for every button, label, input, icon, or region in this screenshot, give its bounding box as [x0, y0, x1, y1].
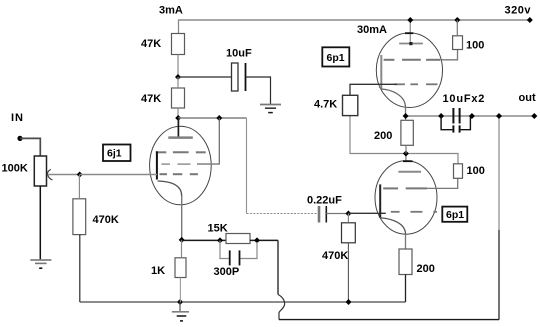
node V1 cathode node — [179, 237, 185, 243]
wire R4 bottom lead — [79, 235, 81, 302]
svg-text:15K: 15K — [208, 223, 228, 235]
node IN terminal — [17, 136, 22, 141]
capacitor C3 0.22uF — [307, 195, 342, 223]
resistor R4 470K — [73, 199, 119, 235]
ground G2 pot — [30, 260, 51, 268]
svg-text:470K: 470K — [322, 250, 348, 262]
capacitor C1 10uF — [226, 48, 252, 92]
wire input to pot — [20, 138, 40, 156]
tube V1 plate — [168, 136, 193, 139]
tube V1 plate lead — [177, 118, 179, 138]
label box 6p1 upper — [322, 47, 349, 66]
svg-text:100: 100 — [467, 165, 485, 177]
svg-text:30mA: 30mA — [357, 24, 387, 36]
resistor R10 4.7K — [314, 95, 358, 115]
tube V1 cathode — [158, 181, 182, 196]
wire R7 top lead — [347, 214, 349, 223]
resistor R12 100 (V3 screen) — [454, 164, 485, 179]
resistor R1 47K — [141, 34, 185, 55]
wire plate junction to coupling corner — [178, 117, 246, 119]
node C4 left — [438, 113, 444, 119]
label box 6p1 lower — [442, 207, 467, 222]
tube V2 grid lead — [380, 55, 382, 89]
svg-text:300P: 300P — [214, 266, 240, 278]
svg-text:470K: 470K — [93, 214, 119, 226]
wire R4 top lead — [78, 175, 80, 199]
tube V1 6j1 envelope — [150, 126, 212, 205]
resistor R6 15K — [208, 223, 251, 244]
node V2 plate rail dot — [407, 17, 413, 23]
wire coupling vertical — [246, 118, 248, 214]
svg-text:200: 200 — [374, 130, 392, 142]
wire 1K top lead — [181, 240, 183, 258]
capacitor C4 10uFx2 — [441, 93, 485, 133]
svg-text:10uFx2: 10uFx2 — [443, 93, 486, 105]
svg-text:100: 100 — [466, 40, 484, 52]
svg-text:200: 200 — [417, 263, 435, 275]
node R7 bus dot — [346, 299, 352, 305]
wire screen tap of V1 — [197, 118, 219, 164]
node SRPP output — [403, 113, 409, 119]
resistor R7 470K — [322, 223, 355, 262]
svg-text:IN: IN — [11, 112, 24, 124]
tube V3 cathode — [380, 218, 405, 234]
wire feedback vertical right lower — [498, 230, 500, 320]
wire 15K right to feedback corner — [250, 239, 278, 241]
wire pot bottom lead — [39, 186, 41, 260]
wire coupling to C3 — [247, 213, 320, 215]
wire grid node to V1 grid — [80, 174, 157, 176]
svg-text:6p1: 6p1 — [446, 209, 464, 221]
svg-text:3mA: 3mA — [159, 5, 183, 17]
svg-text:100K: 100K — [2, 163, 28, 175]
tube V2 control grid dashes — [394, 83, 437, 85]
svg-text:10uF: 10uF — [226, 48, 252, 60]
wire feedback hop over bus — [278, 294, 285, 319]
capacitor C2 300P — [214, 240, 258, 278]
svg-text:out: out — [519, 92, 536, 104]
svg-text:6j1: 6j1 — [107, 148, 122, 160]
wire V2 cathode lead — [405, 108, 407, 117]
wire V2 screen to R9 — [440, 50, 457, 60]
wire feedback bus B bottom — [279, 319, 499, 321]
wire ground bus A — [80, 301, 406, 303]
wire V3 plate node — [350, 116, 458, 164]
potentiometer R3 100K — [2, 156, 47, 186]
wire rail corner down to R1 — [178, 19, 180, 33]
wire R2 top lead — [177, 77, 179, 88]
resistor R9 100 (V2 screen) — [453, 36, 485, 52]
wire pot wiper arrow — [47, 169, 79, 180]
wire R8 top lead — [405, 116, 407, 120]
wire to C1 — [178, 76, 232, 78]
svg-text:47K: 47K — [141, 38, 161, 50]
node bus ground dot — [177, 299, 183, 305]
node out terminal — [531, 113, 537, 119]
tube V1 grid dashes row1 — [156, 151, 206, 153]
svg-text:320v: 320v — [505, 5, 532, 17]
wire V3 cathode lead — [405, 234, 407, 249]
node feedback tap — [496, 113, 502, 119]
resistor R5 1K — [151, 258, 186, 278]
wire 1K bottom lead — [179, 278, 181, 303]
tube V3 screen dashes — [383, 187, 427, 189]
ground G1 — [260, 105, 281, 113]
resistor R2 47K — [141, 88, 185, 108]
node 15K right — [254, 237, 260, 243]
node grid node V1 — [77, 172, 83, 178]
svg-text:47K: 47K — [141, 93, 161, 105]
wire R9 top lead — [456, 20, 458, 36]
tube V1 control grid dashes row3 — [160, 173, 198, 175]
wire feedback vertical down — [277, 240, 279, 294]
wire R7 bottom lead — [347, 243, 349, 303]
tube V3 grid lead — [379, 184, 381, 217]
tube V2 cathode — [381, 89, 405, 108]
wire C1 to ground — [246, 77, 271, 104]
node 320v terminal — [527, 17, 533, 23]
tube V2 screen dashes — [384, 59, 441, 61]
wire R10 top lead to V2 grid — [350, 84, 397, 95]
node V3 grid node — [345, 211, 351, 217]
node 15K left — [217, 237, 223, 243]
svg-text:4.7K: 4.7K — [314, 99, 337, 111]
node V3 plate dot — [403, 151, 409, 157]
node V1 plate junction — [175, 115, 181, 121]
svg-text:1K: 1K — [151, 265, 165, 277]
wire V3 screen to R12 — [427, 178, 458, 188]
wire R1 bottom lead — [177, 55, 179, 78]
label box 6j1 — [103, 145, 131, 162]
node junction R1/R2/C1 — [175, 74, 181, 80]
tube V3 control grid dashes — [391, 211, 437, 213]
wire feedback vertical right upper — [498, 116, 500, 230]
svg-text:6p1: 6p1 — [327, 52, 345, 64]
wire B+ rail 320v — [179, 19, 531, 21]
wire R2 bottom lead — [177, 108, 179, 118]
ground G3 bus — [172, 302, 189, 321]
tube V3 plate lead — [405, 154, 407, 162]
tube V1 screen dashes row2 — [161, 163, 219, 165]
tube V2 plate lead — [409, 20, 411, 44]
tube V2 plate — [399, 43, 423, 45]
wire C3 to grid node — [326, 213, 348, 215]
tube V1 grid lead — [156, 151, 158, 179]
node R9 rail dot — [454, 17, 460, 23]
wire grid node to V3 grid — [348, 212, 385, 214]
svg-text:0.22uF: 0.22uF — [307, 195, 342, 207]
wire R8 bottom lead — [405, 145, 407, 153]
tube V2 6p1 envelope (upper) — [376, 33, 442, 108]
resistor R11 200 (V3 cathode) — [399, 249, 435, 275]
resistor R8 200 (SRPP) — [374, 120, 413, 145]
node screen tap junction — [216, 115, 222, 121]
wire cathode node to 15K — [182, 239, 226, 241]
wire R11 bottom lead to bus — [405, 275, 407, 303]
wire output run — [406, 115, 535, 117]
tube V3 plate — [398, 171, 421, 173]
node C4 right — [469, 113, 475, 119]
tube V3 6p1 envelope (lower) — [375, 161, 437, 234]
wire V1 cathode lead — [181, 196, 183, 240]
